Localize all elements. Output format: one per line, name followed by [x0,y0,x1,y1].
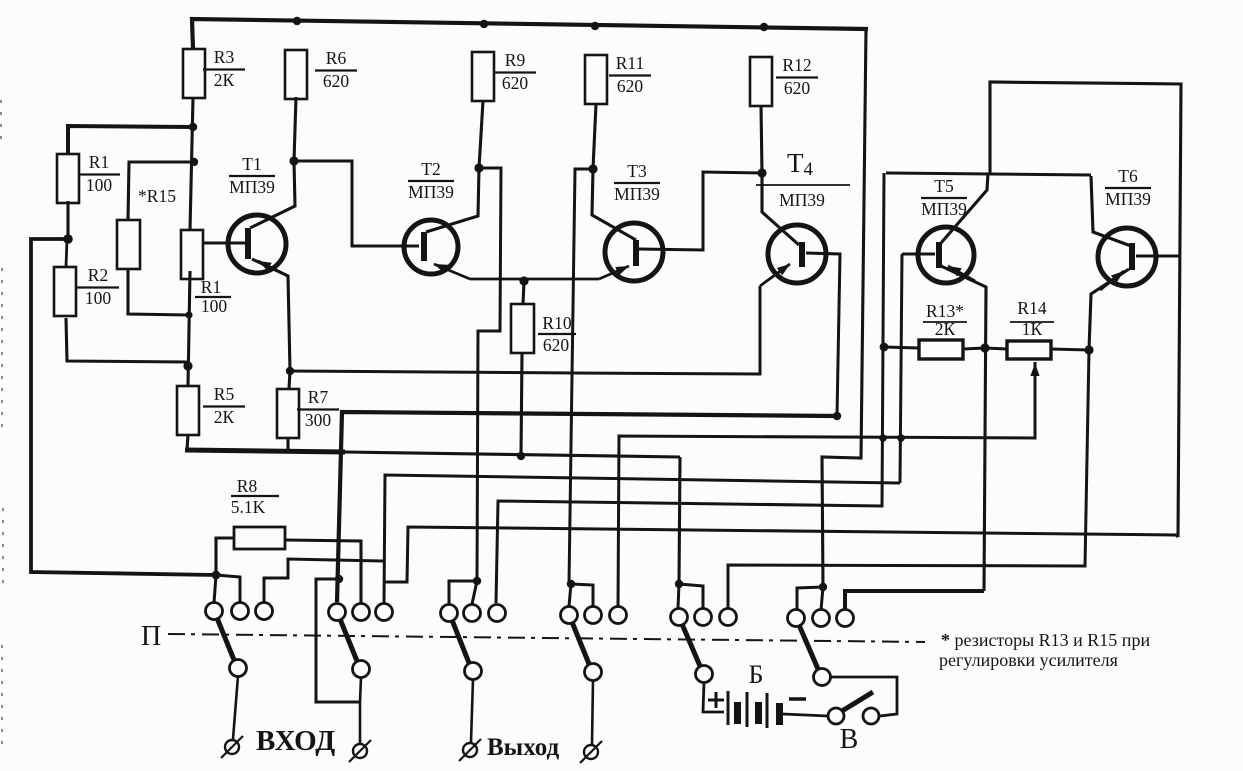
switch contact 5 [353,604,370,621]
resistor R1 (second, base of T1) [181,230,203,279]
resistor R9 [472,52,494,101]
svg-text:1К: 1К [1022,319,1043,339]
switch contact 1 [206,603,223,620]
wire group6 contact a [797,587,823,610]
wire T3 emitter arrow [599,266,629,279]
svg-text:МП39: МП39 [779,190,825,210]
switch arm 3 [452,620,469,663]
wire emitter ground bus [185,450,345,452]
transistor T4 [768,225,826,283]
svg-text:МП39: МП39 [229,177,275,197]
wire R12 bottom column [761,106,762,173]
resistor R14 [1007,341,1051,359]
wire R13 left lead [884,347,919,348]
wire bus533 link [384,527,1178,582]
wiper arrow R14 [1034,363,1036,400]
svg-text:Выход: Выход [487,734,560,761]
switch contact 2 [232,603,249,620]
wire R9 bottom column [479,101,483,168]
wire R2 top [66,239,67,267]
wire group1 contact a [214,575,216,603]
wire group3 contact b [472,581,477,604]
wire battery feed bus y565 [728,350,1089,608]
switch pole 5 [696,666,713,683]
wire T5 emitter [941,266,986,591]
wire switch В to battery bus [829,677,897,716]
node group5 feeder junction [675,580,683,588]
svg-text:Т2: Т2 [421,159,440,179]
wire ground bus to switch group5 [679,457,680,584]
wire T5 collector [941,173,988,243]
svg-text:2К: 2К [214,407,235,427]
svg-text:620: 620 [323,71,350,91]
wire R9 tap to switch group3 [477,168,501,581]
switch В contact [863,708,879,724]
wire T5 emitter arrow [948,266,975,281]
wire group1 contact b [216,575,240,603]
wire T5 base lead [902,253,935,256]
resistor R1 (left) [57,154,79,203]
switch contact 18 [837,610,854,627]
node R1-R2 junction [63,234,73,244]
switch В pole [828,708,844,724]
wire T3 base link to R12 node [639,172,762,250]
svg-text:R12: R12 [782,55,811,75]
switch arm 4 [572,622,589,664]
wire pole6 from arm [0,0,1,1]
svg-text:ВХОД: ВХОД [256,725,335,757]
wire R1 bottom to left rail [66,201,69,239]
svg-text:МП39: МП39 [921,199,967,219]
svg-text:2К: 2К [935,319,956,339]
node R15-col junction [185,311,192,318]
wire R5 bottom [187,434,188,450]
switch pole 1 [230,660,247,677]
terminal input 1 [225,740,239,754]
wire T4 base to switch bus [806,253,840,416]
svg-text:Т6: Т6 [1118,166,1138,186]
wire R14 left lead [985,348,1007,349]
wire group4 contact a [571,584,593,606]
wire R11 bottom column [593,104,596,169]
wire T6 emitter arrow [1100,271,1124,290]
resistor R11 [585,55,607,104]
switch contact 3 [256,603,273,620]
switch contact 17 [813,610,830,627]
switch contact 7 [441,605,458,622]
wire T6 feedback box [990,82,1181,537]
resistor R13 [919,340,963,359]
switch arm 5 [682,624,700,666]
wire base bus y412 to group2 [337,412,837,602]
wire T1 emitter arrow [258,261,288,276]
node group4 feeder junction [567,580,575,588]
svg-text:Т5: Т5 [934,176,954,196]
node R3-R15 junction [190,158,198,166]
transistor T5 [918,227,974,283]
switch pole 4 [585,664,602,681]
svg-text:R1: R1 [89,152,109,172]
node T5base-bus junction [897,434,905,442]
node R10-top junction [519,276,528,285]
wire T1 base column [188,271,190,386]
wire R14 right lead [1051,349,1089,350]
wire group2 contact c riser to bus [384,475,900,604]
node R13 left junction [880,343,889,352]
resistor R6 [285,50,307,99]
svg-text:R10: R10 [542,313,571,333]
wire R8 left lead [216,538,234,575]
switch contact 8 [464,605,481,622]
svg-text:регулировки усилителя: регулировки усилителя [939,650,1118,670]
switch contact 4 [329,604,346,621]
svg-text:5.1K: 5.1K [231,497,266,517]
node R6-T1 junction [289,156,298,165]
svg-text:R14: R14 [1017,298,1046,318]
switch contact 16 [788,610,805,627]
wire emitter line to R10 [470,278,599,281]
wire group1 contact c riser [264,559,384,603]
wire R11 tap to switch group4 [569,169,593,584]
svg-text:100: 100 [85,288,112,308]
wire T2 collector [426,168,479,232]
wire group4 contact b [569,584,571,606]
terminal output 2 [584,745,598,759]
node R10-bus junction [517,452,525,460]
svg-text:620: 620 [502,73,529,93]
resistor R8 [234,527,285,549]
svg-text:300: 300 [305,410,332,430]
node R13-R14 junction [980,343,989,352]
battery Б [727,691,730,725]
wire top supply rail [192,19,868,49]
wire group5 contact b [678,584,679,608]
node rail-R9 [480,20,488,28]
svg-text:100: 100 [201,296,228,316]
node rail-R11 [591,22,599,30]
svg-text:Т3: Т3 [627,161,647,181]
node R14-T6 junction [1084,345,1093,354]
wire output pole 3 down [471,679,473,742]
wire emitter bus y371 [290,286,760,374]
svg-text:R5: R5 [214,384,235,404]
svg-text:R3: R3 [214,47,235,67]
svg-text:R11: R11 [616,53,645,73]
wire T1 emitter to R7 [252,259,290,389]
wire R15 top link [128,162,194,220]
label plus [708,699,724,702]
resistor R2 [54,267,76,316]
switch contact 10 [561,607,578,624]
wire T6 emitter [1089,269,1129,350]
scan edge artifact left [1,100,3,748]
wire R13 right lead [963,348,985,349]
wire T6 collector [1091,176,1131,246]
node R11-T3 junction [588,164,597,173]
svg-text:620: 620 [784,78,811,98]
node R3-R1 junction [189,123,197,131]
switch contact 13 [671,609,688,626]
wire R2 bottom link [66,318,188,362]
svg-text:МП39: МП39 [1105,189,1151,209]
svg-text:МП39: МП39 [408,182,454,202]
node R12-T4 junction [757,168,766,177]
wire output bus y501 [496,173,884,603]
switch contact 12 [610,607,627,624]
wire collector link y173 [886,173,1091,175]
wire group6 contact c to T5 emitter [845,591,984,610]
svg-text:R6: R6 [326,48,347,68]
wire battery positive lead [703,682,724,712]
svg-text:R9: R9 [505,50,526,70]
svg-text:R13*: R13* [926,301,964,321]
switch П dashed gang line [168,634,925,642]
wire group3 contact a [449,581,477,604]
wire R10 top [523,281,524,304]
svg-text:R1: R1 [201,277,221,297]
switch pole 2 [353,661,370,678]
switch contact 9 [489,605,506,622]
wire R3 bottom column [190,98,193,230]
switch arm 6 [799,625,818,669]
svg-text:R8: R8 [237,476,258,496]
switch contact 6 [376,604,393,621]
switch contact 15 [720,609,737,626]
node rail-R6 [293,17,301,25]
svg-text:R2: R2 [88,265,108,285]
wire input pole 1 down [233,676,238,739]
node R9-T2 junction [474,163,483,172]
wire T2 base link [294,161,419,246]
resistor R3 [183,49,205,98]
switch arm 1 [217,618,234,660]
resistor R15 (trimmer) [117,220,140,269]
svg-text:620: 620 [617,76,644,96]
transistor T6 [1098,228,1156,286]
wire output pole 4 down [592,680,593,744]
label minus [789,697,806,700]
wire input pole 2 down [360,677,361,743]
svg-text:100: 100 [86,175,113,195]
wire R1 top link [68,126,193,154]
switch arm 2 [340,619,357,661]
switch В arm [842,692,873,711]
node bus437 cross junction [879,434,887,442]
resistor R10 [511,304,534,353]
wire R10 bottom [521,353,522,456]
svg-text:* резисторы R13 и R15 при: * резисторы R13 и R15 при [941,630,1150,650]
node R8 junction [212,571,221,580]
wire group5 contact a [679,584,703,608]
wire T5 base riser [900,254,902,483]
wire battery negative lead [783,714,828,716]
svg-text:2К: 2К [214,70,235,90]
wire T4 emitter arrow [760,264,790,286]
svg-text:Т1: Т1 [242,154,261,174]
node rail-R12 [760,23,768,31]
wire group6 contact b [821,587,823,610]
wire rail drop to group6 [822,29,866,587]
switch pole 3 [465,663,482,680]
transistor T3 [605,223,663,281]
node group2 feeder junction [335,575,343,583]
switch pole 6 [814,669,831,686]
terminal input 2 [353,744,367,758]
node bus412 end [833,412,841,420]
resistor R12 [750,57,772,106]
svg-text:МП39: МП39 [614,184,660,204]
node T1emitter-bus junction [286,367,294,375]
wire R8 right lead to group2 contact [285,540,361,604]
wire group2 tap to input terminal [316,579,360,702]
node group3 feeder junction [473,577,481,585]
wire T6 base lead [1136,255,1181,258]
wire T1 base lead [204,242,245,245]
wire R7 bottom [286,437,289,452]
switch contact 14 [695,609,712,626]
svg-text:Б: Б [749,660,764,689]
wire T4 collector diag [762,173,799,245]
transistor T1 [228,215,286,273]
svg-text:620: 620 [543,335,570,355]
svg-text:В: В [840,724,859,755]
svg-text:*R15: *R15 [138,186,176,206]
terminal output 1 [463,743,477,757]
resistor R7 [277,389,299,438]
node group6 feeder junction [819,583,827,591]
svg-text:П: П [141,621,161,652]
wire T1 collector [250,161,295,228]
wire left rail down [31,239,216,575]
wire T3 collector diag [592,169,636,240]
node R2-col junction [183,361,192,370]
resistor R5 [177,386,199,435]
wire R15 bottom link [128,269,189,315]
wire R14 wiper bus [618,362,1035,607]
transistor T2 [404,220,458,274]
wire R6 bottom column [294,97,296,161]
switch contact 11 [585,607,602,624]
svg-text:R7: R7 [308,387,329,407]
wire T2 emitter arrow [434,264,470,279]
wire input selector link [31,572,216,575]
